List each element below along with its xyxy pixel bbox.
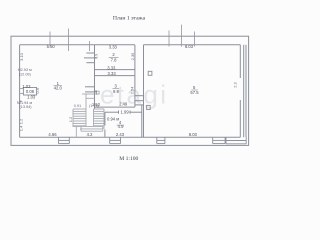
- door lines across internal wall: [135, 95, 144, 97]
- svg-text:2.43: 2.43: [116, 132, 125, 137]
- room 3 bottom wall: [95, 106, 135, 108]
- svg-text:0.9: 0.9: [35, 87, 40, 93]
- window A: [58, 137, 60, 143]
- room 5 label underline: [191, 89, 197, 91]
- room 4 label underline: [117, 124, 125, 126]
- room 1 label underline: [54, 85, 63, 87]
- door arrow mark room 1: [20, 100, 23, 102]
- svg-text:0.94 м: 0.94 м: [107, 116, 119, 121]
- svg-text:0.9: 0.9: [94, 54, 98, 59]
- svg-text:(1.76): (1.76): [89, 104, 100, 108]
- bottom wall inner face: [20, 136, 241, 138]
- room 2 label underline: [109, 56, 119, 58]
- room 2 bottom wall: [95, 69, 136, 71]
- window C: [156, 137, 158, 143]
- outer wall face / frame: [11, 36, 249, 145]
- svg-text:8.03: 8.03: [189, 132, 198, 137]
- stair landing: [80, 126, 82, 131]
- svg-text:0.91: 0.91: [74, 104, 81, 108]
- svg-text:1.4: 1.4: [19, 125, 24, 131]
- top wall inner face, right section: [144, 44, 241, 46]
- svg-text:1.03: 1.03: [27, 95, 36, 100]
- landing upper lines: [82, 93, 95, 95]
- internal thick wall right face (room 5 left wall): [143, 45, 145, 137]
- staircase right flight: [93, 109, 95, 126]
- stove connection ticks: [20, 88, 24, 90]
- staircase left flight: [72, 109, 74, 126]
- rotated small texts: [19, 52, 238, 131]
- internal wall lower segment: [141, 105, 143, 137]
- svg-text:2.35: 2.35: [130, 52, 135, 61]
- window E: [225, 137, 227, 144]
- stove box in room 1: [23, 88, 36, 96]
- svg-text:(13.94): (13.94): [19, 105, 32, 109]
- svg-text:2.3: 2.3: [233, 81, 238, 87]
- svg-text:4.2: 4.2: [87, 132, 93, 137]
- room 3 label underline: [113, 88, 120, 90]
- room 4 left wall with door gap: [104, 112, 106, 125]
- svg-text:3.33: 3.33: [108, 71, 117, 76]
- svg-text:1.99: 1.99: [121, 110, 130, 115]
- svg-text:(12.09): (12.09): [19, 73, 32, 77]
- room 2 door jamb marks: [86, 52, 94, 54]
- window B: [109, 137, 111, 143]
- room 3 door jamb marks: [85, 86, 95, 88]
- svg-text:3.33: 3.33: [109, 45, 118, 50]
- right wall inner face: [239, 45, 241, 78]
- svg-text:3.10: 3.10: [19, 52, 24, 61]
- svg-text:2.49: 2.49: [119, 101, 128, 106]
- top wall inner face, left section: [20, 44, 135, 46]
- window D: [212, 137, 214, 143]
- svg-text:3.33: 3.33: [107, 65, 116, 70]
- left wall inner face: [19, 45, 21, 137]
- svg-text:1.03: 1.03: [22, 84, 31, 89]
- room 2 / room 3 left wall: [94, 45, 96, 109]
- svg-text:1.2: 1.2: [19, 118, 24, 124]
- svg-text:1.2: 1.2: [68, 116, 73, 122]
- svg-text:7.8: 7.8: [111, 58, 117, 63]
- bottom windows: [59, 137, 247, 144]
- stove squares in room 5: [23, 71, 152, 109]
- svg-text:Н2.93 м: Н2.93 м: [18, 68, 32, 72]
- right wall window mid lines: [243, 45, 245, 137]
- svg-text:42.0: 42.0: [54, 86, 63, 91]
- svg-text:9.9: 9.9: [113, 89, 119, 94]
- svg-text:5.50: 5.50: [47, 44, 56, 49]
- room 4 top wall with door gap: [105, 111, 118, 113]
- dimension ticks over top wall: [49, 32, 51, 47]
- internal thick wall left face: [134, 45, 136, 107]
- svg-text:4.66: 4.66: [48, 132, 57, 137]
- svg-text:57.5: 57.5: [190, 90, 199, 95]
- svg-text:4.9: 4.9: [118, 124, 124, 129]
- underlines for room labels: [54, 57, 198, 125]
- svg-text:План 1 этажа: План 1 этажа: [113, 16, 146, 22]
- small dimension texts: [22, 44, 199, 137]
- svg-text:0.8: 0.8: [94, 90, 98, 95]
- small box right of wall: [96, 91, 99, 94]
- svg-text:8.03: 8.03: [185, 44, 194, 49]
- svg-text:0.08: 0.08: [26, 89, 35, 94]
- svg-text:2.54: 2.54: [130, 86, 135, 95]
- room 3 top wall: [95, 75, 135, 77]
- svg-text:М 1:100: М 1:100: [119, 156, 138, 162]
